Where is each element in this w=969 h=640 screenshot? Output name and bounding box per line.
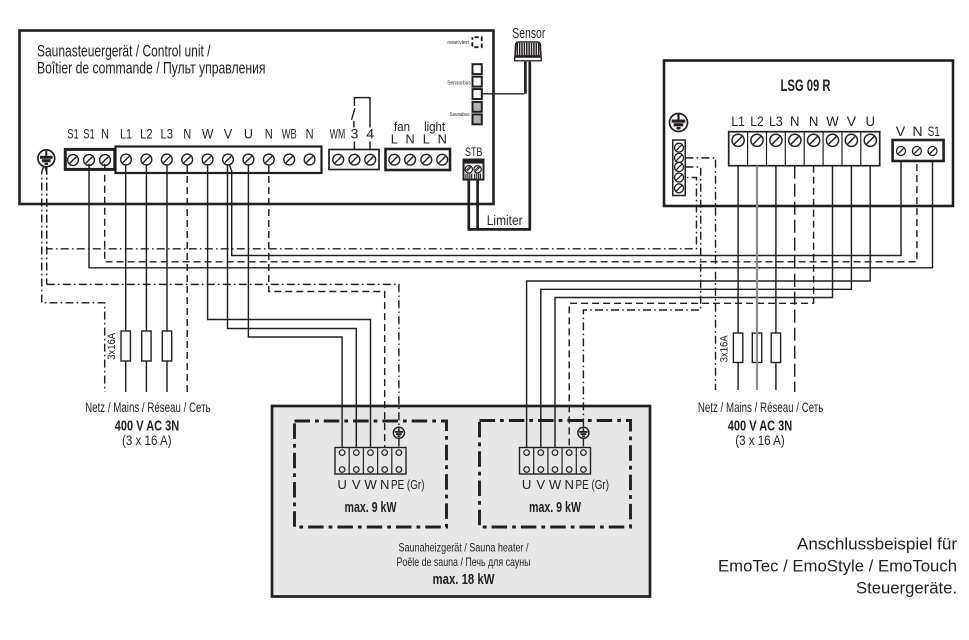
svg-text:S1: S1 <box>83 126 95 142</box>
LSG terminal block V N S1 <box>893 140 944 161</box>
svg-text:N: N <box>438 133 447 147</box>
fuse F4 16A <box>733 333 742 363</box>
svg-text:EmoTec / EmoStyle / EmoTouch: EmoTec / EmoStyle / EmoTouch <box>718 558 957 576</box>
wire V control unit to LSG V (solid) <box>229 161 901 255</box>
svg-text:N: N <box>265 126 273 142</box>
svg-text:Poêle de sauna / Печь для саун: Poêle de sauna / Печь для сауны <box>397 556 531 569</box>
STB wires to limiter <box>467 180 470 230</box>
wire LSG L2 mains (gray) <box>756 166 758 390</box>
fuse F6 16A <box>771 333 780 363</box>
svg-text:PE (Gr): PE (Gr) <box>391 477 425 492</box>
svg-text:max. 9 kW: max. 9 kW <box>345 500 397 516</box>
wire LSG L3 mains <box>775 166 777 333</box>
wire L2 mains left <box>145 165 147 331</box>
svg-text:N: N <box>380 477 389 492</box>
svg-text:3x16A: 3x16A <box>106 332 118 359</box>
svg-text:N: N <box>809 114 819 129</box>
svg-text:Steuergeräte.: Steuergeräte. <box>856 580 957 598</box>
svg-text:N: N <box>564 477 573 492</box>
heater element 2 dash-dot box <box>480 421 631 528</box>
ground symbol PE LSG <box>670 114 688 132</box>
svg-text:Limiter: Limiter <box>487 213 523 228</box>
svg-text:N: N <box>790 114 800 129</box>
sensor limiter wire <box>528 62 531 230</box>
svg-text:W: W <box>826 114 839 129</box>
svg-text:(3 x 16 A): (3 x 16 A) <box>735 433 785 448</box>
wire PE control unit to LSG (dash-dot) <box>47 167 697 249</box>
svg-text:STB: STB <box>465 147 483 159</box>
wire V control unit to heater 1 V <box>228 165 357 448</box>
svg-text:4: 4 <box>366 126 374 142</box>
svg-text:N: N <box>406 133 415 147</box>
LSG 09 R box U2 <box>664 61 953 207</box>
svg-text:U: U <box>337 477 346 492</box>
wire PE heater 1 stub <box>398 438 400 447</box>
svg-text:L3: L3 <box>769 114 783 129</box>
svg-text:V: V <box>896 124 906 140</box>
svg-text:Saunaheizgerät / Sauna heater: Saunaheizgerät / Sauna heater / <box>399 541 530 554</box>
svg-text:max. 18 kW: max. 18 kW <box>433 572 495 588</box>
svg-text:reserviert: reserviert <box>447 40 469 46</box>
wire L3 mains left lower <box>166 361 168 392</box>
ground symbol heater 2 <box>578 427 589 438</box>
terminal strip WM 3 4 <box>329 150 379 170</box>
switch between WM terminals 3 and 4 <box>354 98 370 150</box>
terminal strip fan light <box>386 149 451 170</box>
wire LSG PE to mains (dash-dot) <box>685 158 715 390</box>
svg-text:WM: WM <box>330 126 346 142</box>
wire PE control unit to mains (dash-dot) <box>42 167 105 392</box>
svg-text:N: N <box>912 124 922 140</box>
svg-text:3: 3 <box>350 126 358 142</box>
svg-text:400 V AC 3N: 400 V AC 3N <box>728 419 793 435</box>
svg-text:L1: L1 <box>120 126 132 142</box>
fuse F2 16A <box>142 331 151 361</box>
svg-text:U: U <box>244 126 253 142</box>
svg-text:L2: L2 <box>140 126 153 142</box>
wire S1 strip1 to LSG S1 (solid) <box>89 161 933 268</box>
svg-text:L: L <box>423 133 430 147</box>
wire PE heater 2 stub <box>582 438 584 447</box>
wire L1 mains left <box>125 165 127 331</box>
svg-text:Boîtier de commande / Пульт уп: Boîtier de commande / Пульт управления <box>37 58 266 77</box>
wire LSG L1 mains lower <box>737 363 739 391</box>
svg-text:Netz / Mains / Réseau / Сеть: Netz / Mains / Réseau / Сеть <box>698 400 824 415</box>
control unit box U1 <box>20 31 494 205</box>
svg-text:L2: L2 <box>750 114 764 129</box>
svg-text:S1: S1 <box>928 124 940 140</box>
svg-text:V: V <box>224 126 233 142</box>
wire PE bus to heater 1 ground (dash-dot) <box>47 284 399 427</box>
svg-text:S1: S1 <box>67 126 79 142</box>
wire LSG PE to heater 2 ground (dash-dot) <box>583 167 700 427</box>
terminal strip L1 L2 L3 N W V U N WB N <box>116 147 322 174</box>
svg-text:Sensorbus: Sensorbus <box>447 80 471 86</box>
svg-text:W: W <box>364 477 377 492</box>
fuse F3 16A <box>162 331 171 361</box>
ground symbol PE control unit <box>38 150 55 167</box>
svg-text:max. 9 kW: max. 9 kW <box>529 500 581 516</box>
wire LSG L1 mains <box>737 166 739 333</box>
LSG terminal strip L1 L2 L3 N N W V U <box>729 132 880 166</box>
wire U control unit to heater 1 U <box>248 165 342 448</box>
fuse F1 16A <box>121 331 130 361</box>
svg-text:U: U <box>866 114 876 129</box>
wire L2 mains left lower <box>145 361 147 392</box>
sensor wire to sensorbus <box>524 62 527 94</box>
wire LSG V to heater 2 V <box>541 166 852 448</box>
terminal strip S1 S1 N <box>65 149 115 169</box>
svg-text:N: N <box>306 126 314 142</box>
svg-text:W: W <box>549 477 562 492</box>
heater 2 terminal block U V W N PE <box>520 448 591 475</box>
svg-text:WB: WB <box>282 126 297 142</box>
svg-text:V: V <box>352 477 361 492</box>
svg-text:L1: L1 <box>731 114 745 129</box>
svg-text:Sensor: Sensor <box>512 25 545 42</box>
sauna heater box (gray) <box>272 406 650 597</box>
fuse F5 16A <box>752 333 761 363</box>
wire L3 mains left <box>166 165 168 331</box>
svg-text:PE (Gr): PE (Gr) <box>576 477 610 492</box>
svg-text:L3: L3 <box>161 126 174 142</box>
wire LSG L3 mains lower <box>775 363 777 391</box>
wire PE control unit to heater 1 (dash-dot) <box>45 167 47 285</box>
svg-text:400 V AC 3N: 400 V AC 3N <box>115 419 180 435</box>
wire W control unit to heater 1 W <box>208 165 371 448</box>
svg-text:(3 x 16 A): (3 x 16 A) <box>122 433 172 448</box>
svg-text:LSG 09 R: LSG 09 R <box>781 77 831 95</box>
heater element 1 dash-dot box <box>295 421 447 527</box>
wire LSG U to heater 2 U <box>527 166 871 448</box>
LSG vertical terminal strip <box>673 140 685 196</box>
svg-text:3x16A: 3x16A <box>718 335 730 362</box>
svg-text:N: N <box>183 126 191 142</box>
wire LSG W to heater 2 W <box>555 166 833 448</box>
svg-text:U: U <box>522 477 531 492</box>
wire LSG N to heater 2 N (dashed) <box>569 166 813 448</box>
svg-text:Netz / Mains / Réseau / Сеть: Netz / Mains / Réseau / Сеть <box>85 400 211 415</box>
svg-text:L: L <box>391 133 398 147</box>
wire L1 mains left lower <box>125 361 127 392</box>
wire N strip1 to LSG N (dashed) <box>105 161 917 262</box>
wire LSG N mains (long dash) <box>794 166 796 392</box>
svg-text:Anschlussbeispiel für: Anschlussbeispiel für <box>797 536 958 554</box>
heater 1 terminal block U V W N PE <box>335 448 406 475</box>
svg-text:W: W <box>202 126 214 142</box>
wire N control unit to heater 1 N (dashed) <box>269 165 385 448</box>
svg-text:Saunabus: Saunabus <box>450 112 470 118</box>
ground symbol heater 1 <box>393 427 404 438</box>
wire N mains left (dashed) <box>186 165 188 392</box>
svg-text:V: V <box>847 114 857 129</box>
svg-text:N: N <box>101 126 109 142</box>
svg-text:V: V <box>536 477 545 492</box>
